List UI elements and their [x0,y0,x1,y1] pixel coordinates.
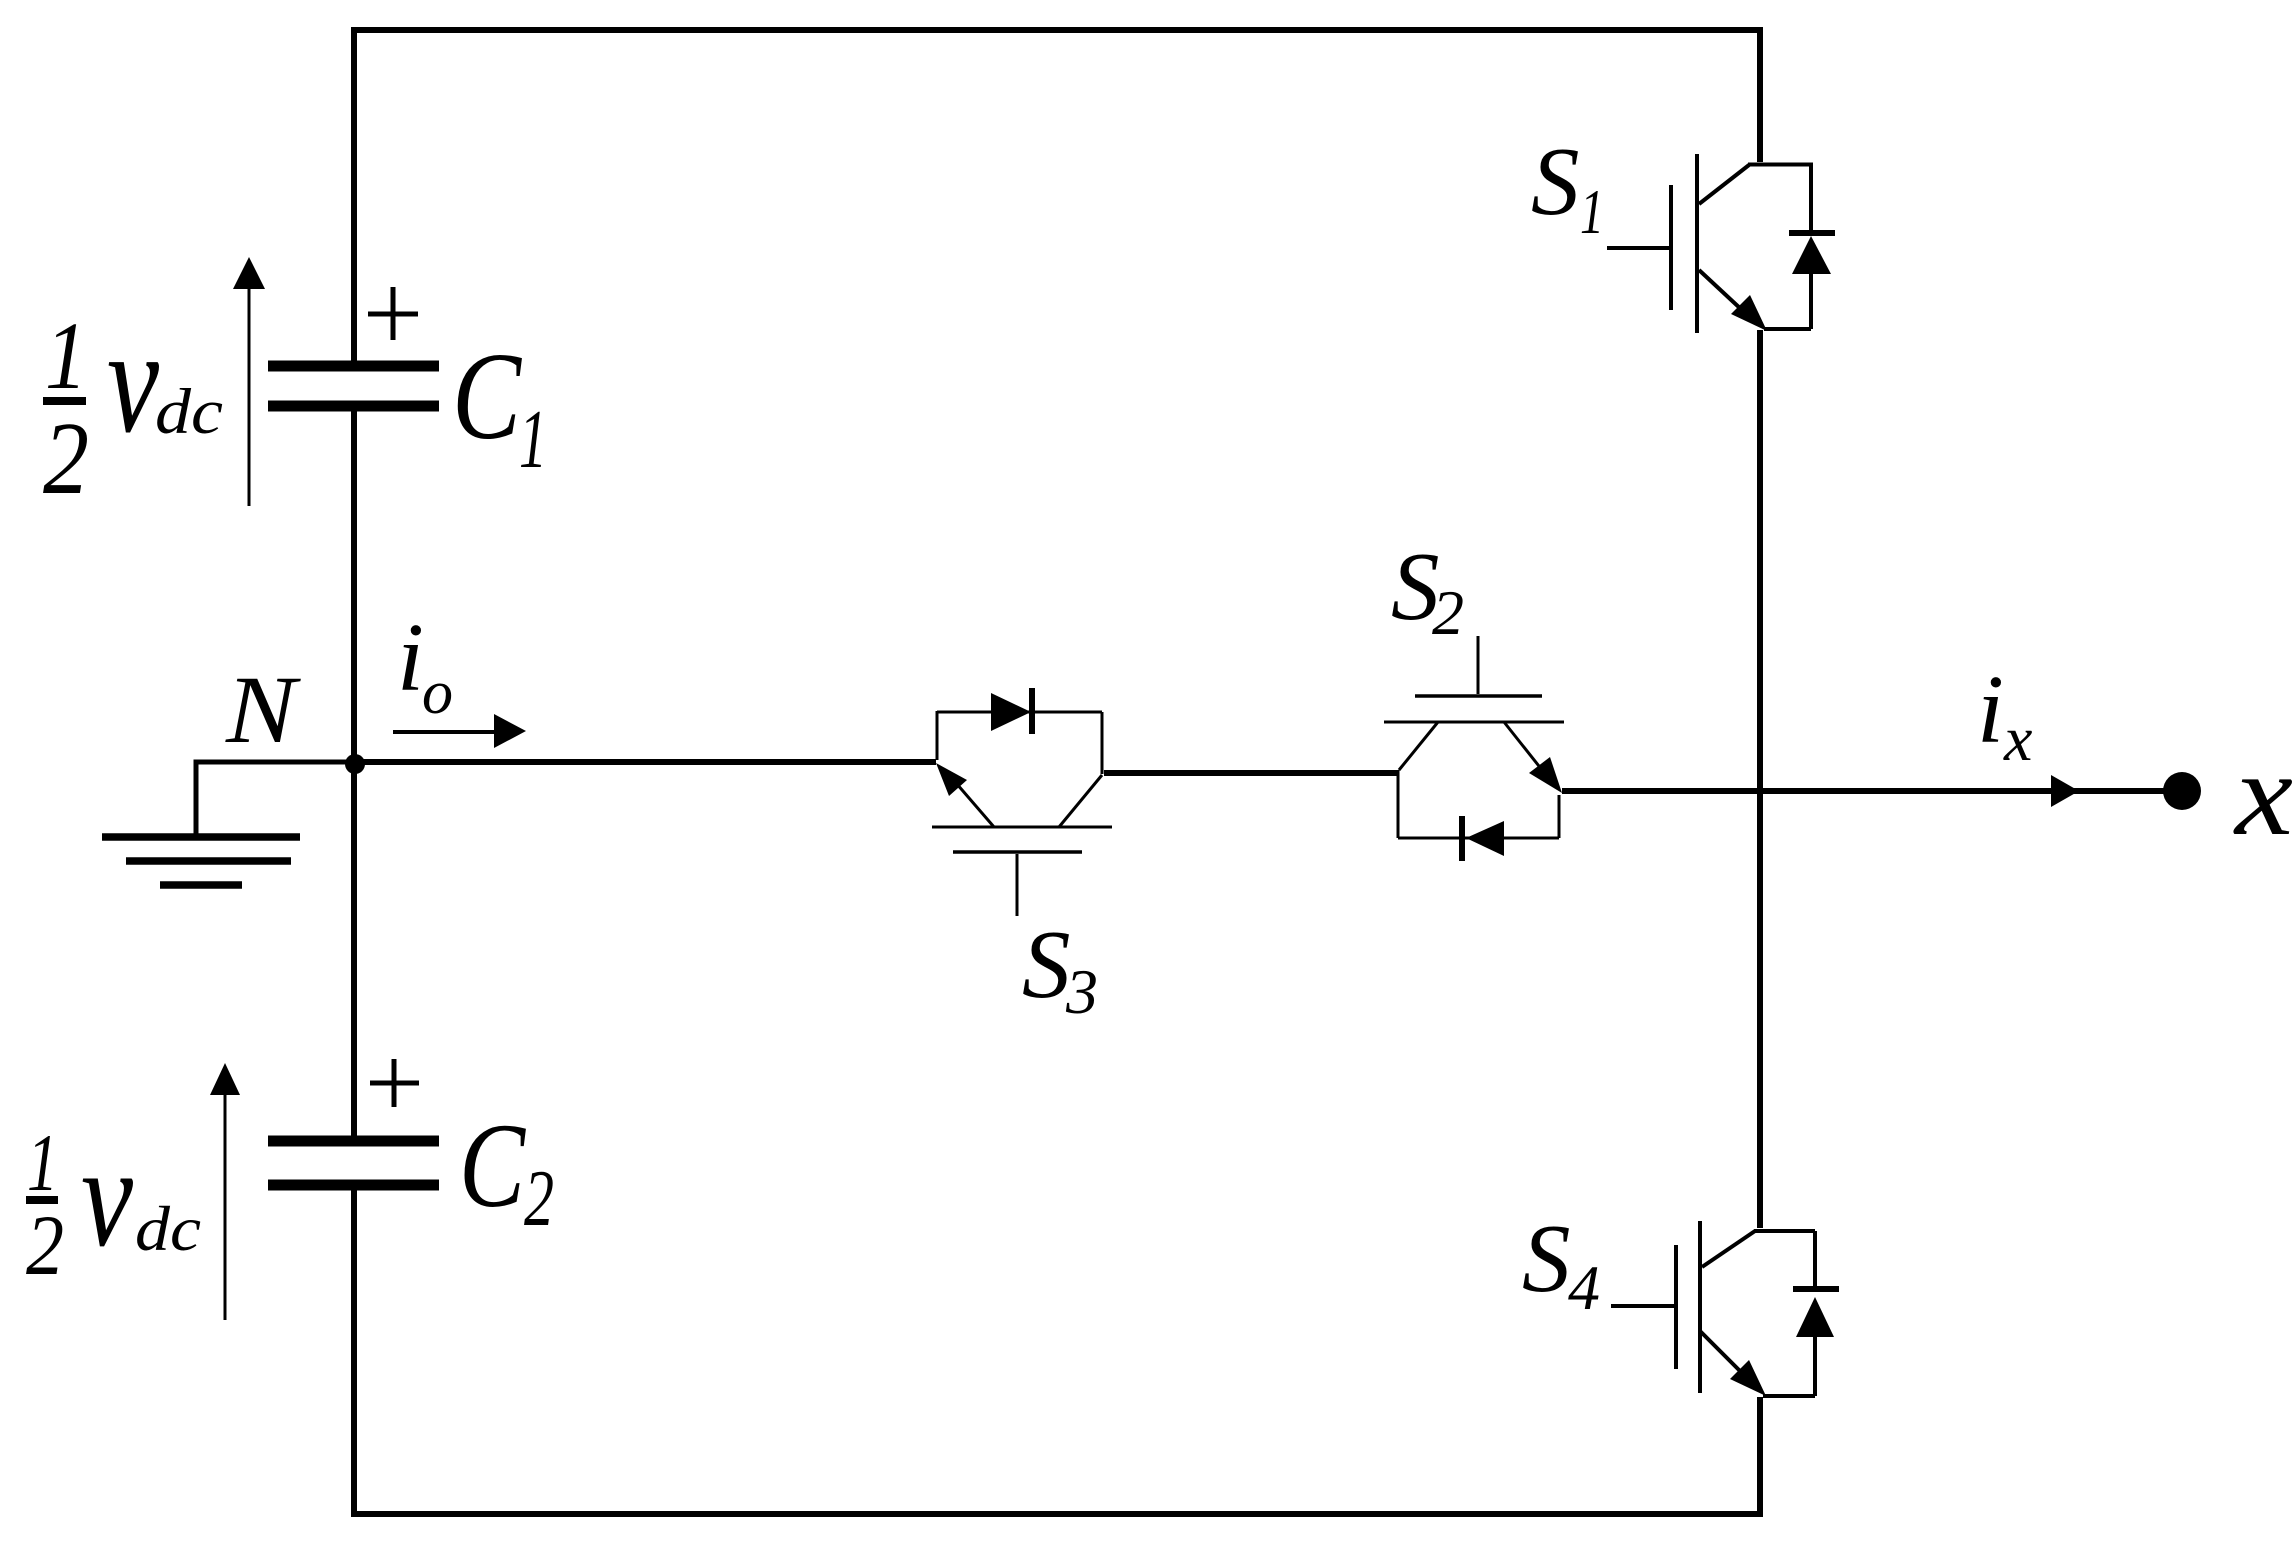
svg-text:i: i [397,604,424,711]
svg-text:1: 1 [45,302,87,409]
svg-text:2: 2 [43,401,89,516]
svg-text:o: o [422,659,453,727]
svg-text:4: 4 [1568,1252,1600,1323]
svg-text:N: N [225,656,302,763]
svg-text:C: C [452,328,522,466]
svg-text:v: v [107,298,159,464]
svg-text:2: 2 [1432,577,1464,648]
svg-text:S: S [1522,1205,1571,1312]
svg-text:dc: dc [135,1193,201,1264]
svg-text:x: x [2003,703,2032,774]
svg-text:S: S [1531,128,1580,235]
svg-text:x: x [2233,728,2293,860]
svg-text:1: 1 [27,1117,58,1208]
svg-text:1: 1 [1580,177,1604,247]
svg-text:S: S [1022,911,1071,1018]
svg-text:2: 2 [26,1197,64,1293]
svg-text:3: 3 [1065,956,1098,1027]
svg-text:i: i [1977,656,2004,763]
svg-text:v: v [81,1117,134,1277]
svg-text:1: 1 [519,393,547,486]
svg-text:2: 2 [524,1153,554,1243]
svg-text:C: C [459,1099,526,1233]
svg-text:dc: dc [155,376,223,448]
